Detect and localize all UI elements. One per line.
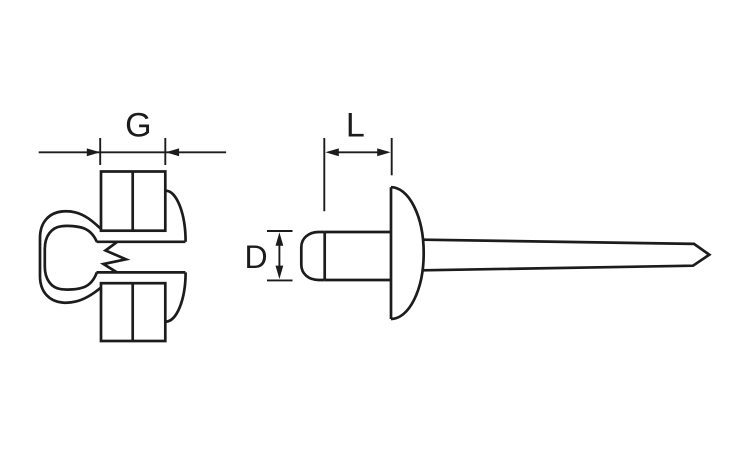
set head dome upper arc	[166, 191, 186, 242]
L extension line right	[391, 138, 393, 175]
body/cap joint line	[323, 232, 326, 280]
installed rivet: plate sheet upper rectangle	[101, 172, 165, 231]
rivet body bottom line	[325, 279, 391, 282]
D dimension line	[278, 236, 280, 276]
L dimension line	[329, 151, 387, 153]
L arrowhead left	[325, 148, 338, 156]
G extension line left	[99, 138, 101, 165]
G extension line right	[164, 138, 166, 165]
flange dome arc	[391, 187, 424, 319]
D extension line bottom	[267, 279, 293, 281]
svg-text:G: G	[125, 107, 151, 145]
rivet body cap (mandrel head)	[301, 232, 324, 280]
installed rivet: plate sheet lower rectangle	[101, 283, 165, 341]
rivet body top line	[325, 231, 391, 234]
set head dome lower arc	[166, 272, 186, 321]
bulb outer outline	[40, 211, 101, 302]
D arrowhead bottom	[276, 266, 284, 279]
D extension line top	[267, 230, 293, 232]
mandrel stem with point	[423, 240, 710, 271]
rivet bore lower line	[97, 271, 186, 274]
plate joint line lower	[131, 283, 134, 341]
L arrowhead right	[377, 148, 390, 156]
D arrowhead top	[276, 232, 284, 245]
flange flat face	[390, 187, 393, 319]
G arrowhead left	[87, 148, 100, 156]
svg-text:L: L	[346, 106, 365, 144]
L extension line left	[323, 138, 325, 211]
rivet bore upper line	[97, 240, 186, 243]
G arrowhead right	[166, 148, 179, 156]
svg-text:D: D	[244, 239, 267, 275]
G dimension line	[39, 151, 226, 153]
broken mandrel zigzag	[104, 242, 127, 272]
bulb inner cavity outline	[45, 226, 97, 290]
plate joint line upper	[131, 172, 134, 231]
